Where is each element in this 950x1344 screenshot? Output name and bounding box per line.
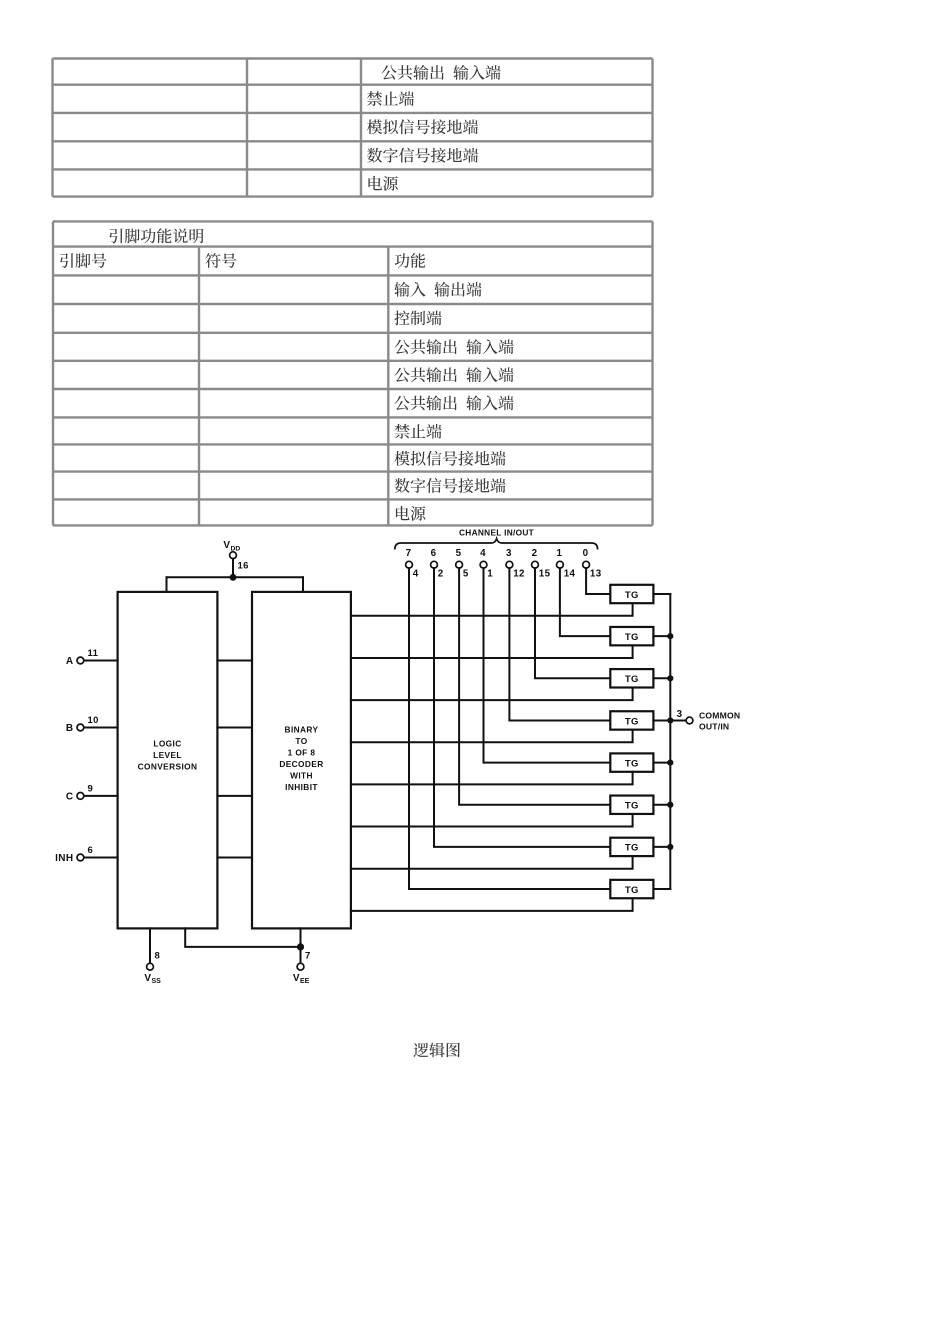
svg-text:1: 1 (556, 548, 562, 559)
svg-text:13: 13 (590, 569, 602, 580)
wire VDD stub (232, 559, 234, 578)
junction VEE (297, 943, 304, 950)
junction bus TG4 (667, 717, 673, 723)
svg-text:DECODER: DECODER (279, 759, 323, 769)
terminal INH (77, 854, 84, 861)
svg-text:TG: TG (625, 632, 639, 643)
svg-text:TG: TG (625, 590, 639, 601)
op block U1 LOGIC LEVEL CONVERSION (118, 592, 218, 929)
wire decoder output 2 (351, 645, 633, 658)
wire channel 6 to TG7 (434, 568, 610, 847)
table 1 grid (53, 57, 653, 59)
wire U1 to U2 level A (217, 660, 252, 662)
svg-text:1 OF 8: 1 OF 8 (288, 747, 316, 757)
wire VDD rail (167, 576, 304, 578)
svg-text:7: 7 (305, 951, 311, 962)
svg-text:DD: DD (231, 546, 241, 553)
wire input C (84, 795, 118, 797)
wire VDD drop left (166, 577, 168, 592)
junction bus TG6 (667, 802, 673, 808)
transmission gate TG1 (610, 585, 653, 603)
terminal C (77, 793, 84, 800)
svg-text:B: B (66, 723, 74, 734)
wire channel 3 to TG4 (509, 568, 610, 720)
svg-text:1: 1 (487, 569, 493, 580)
svg-text:TG: TG (625, 801, 639, 812)
transmission gate TG6 (610, 796, 653, 814)
wire U1 to U2 level B (217, 727, 252, 729)
terminal B (77, 724, 84, 731)
svg-text:WITH: WITH (290, 770, 313, 780)
svg-text:C: C (66, 791, 74, 802)
svg-text:3: 3 (677, 709, 683, 720)
svg-text:6: 6 (88, 845, 94, 856)
wire decoder output 7 (351, 856, 633, 869)
wire TG1 output (653, 593, 670, 595)
svg-text:INHIBIT: INHIBIT (285, 782, 318, 792)
svg-text:5: 5 (463, 569, 469, 580)
svg-text:EE: EE (300, 978, 310, 985)
svg-text:TG: TG (625, 843, 639, 854)
wire TG8 output (653, 888, 670, 890)
table 2 text (109, 228, 203, 243)
wire input A (84, 660, 118, 662)
terminal channel 4 (480, 561, 487, 568)
terminal channel 3 (506, 561, 513, 568)
svg-text:CHANNEL IN/OUT: CHANNEL IN/OUT (459, 528, 534, 538)
svg-text:7: 7 (406, 548, 412, 559)
terminal VEE pin 7 (297, 963, 304, 970)
svg-text:12: 12 (513, 569, 525, 580)
wire common tap (670, 719, 686, 721)
terminal COMMON OUT/IN pin 3 (686, 717, 693, 724)
svg-text:16: 16 (238, 561, 249, 572)
transmission gate TG5 (610, 753, 653, 771)
terminal channel 6 (431, 561, 438, 568)
junction VDD (230, 574, 237, 581)
table 2 grid (53, 220, 653, 222)
wire channel 0 to TG1 (586, 568, 610, 594)
svg-text:2: 2 (438, 569, 444, 580)
wire TG7 output (653, 846, 670, 848)
wire decoder output 8 (351, 898, 633, 911)
svg-text:10: 10 (88, 715, 99, 726)
svg-text:TG: TG (625, 674, 639, 685)
svg-text:2: 2 (532, 548, 538, 559)
wire U1 to U2 level C (217, 795, 252, 797)
svg-text:LEVEL: LEVEL (153, 750, 182, 760)
wire channel 5 to TG6 (459, 568, 610, 805)
svg-text:TG: TG (625, 758, 639, 769)
svg-text:A: A (66, 656, 74, 667)
wire common bus (669, 594, 671, 889)
wire decoder output 4 (351, 730, 633, 743)
svg-text:TO: TO (295, 736, 307, 746)
wire decoder output 6 (351, 814, 633, 827)
svg-text:4: 4 (480, 548, 486, 559)
terminal channel 2 (532, 561, 539, 568)
transmission gate TG2 (610, 627, 653, 645)
svg-text:LOGIC: LOGIC (153, 739, 181, 749)
svg-text:15: 15 (539, 569, 551, 580)
svg-text:V: V (144, 973, 151, 984)
wire VDD drop right (302, 577, 304, 592)
svg-text:3: 3 (506, 548, 512, 559)
svg-text:V: V (223, 540, 230, 551)
svg-text:COMMON: COMMON (699, 711, 740, 721)
brace channel group (395, 539, 598, 550)
svg-text:TG: TG (625, 885, 639, 896)
transmission gate TG4 (610, 711, 653, 729)
wire decoder output 1 (351, 603, 633, 616)
wire TG3 output (653, 677, 670, 679)
junction bus TG7 (667, 844, 673, 850)
svg-text:4: 4 (413, 569, 419, 580)
terminal channel 5 (456, 561, 463, 568)
svg-text:0: 0 (583, 548, 589, 559)
transmission gate TG3 (610, 669, 653, 687)
terminal channel 1 (557, 561, 564, 568)
terminal VSS pin 8 (147, 963, 154, 970)
junction bus TG2 (667, 633, 673, 639)
svg-text:5: 5 (456, 548, 462, 559)
terminal channel 7 (406, 561, 413, 568)
caption 逻辑图 (413, 1043, 460, 1058)
wire input INH (84, 857, 118, 859)
svg-text:9: 9 (88, 783, 94, 794)
wire U1 to U2 level INH (217, 857, 252, 859)
terminal channel 0 (583, 561, 590, 568)
wire TG5 output (653, 762, 670, 764)
wire U1 bottom to VEE jog (185, 928, 300, 947)
svg-text:SS: SS (152, 978, 162, 985)
op block U2 BINARY TO 1 OF 8 DECODER WITH INHIBIT (252, 592, 351, 929)
table 1 text (381, 65, 500, 80)
wire decoder output 3 (351, 688, 633, 701)
svg-text:8: 8 (155, 951, 161, 962)
svg-text:V: V (293, 973, 300, 984)
wire TG6 output (653, 804, 670, 806)
svg-text:BINARY: BINARY (285, 725, 319, 735)
svg-text:INH: INH (55, 853, 73, 864)
svg-text:11: 11 (88, 648, 99, 659)
transmission gate TG7 (610, 838, 653, 856)
svg-text:OUT/IN: OUT/IN (699, 722, 729, 732)
svg-text:14: 14 (564, 569, 576, 580)
svg-text:6: 6 (431, 548, 437, 559)
svg-text:CONVERSION: CONVERSION (138, 762, 198, 772)
terminal VDD pin 16 (230, 552, 237, 559)
svg-text:TG: TG (625, 716, 639, 727)
wire channel 7 to TG8 (409, 568, 610, 889)
junction bus TG3 (667, 675, 673, 681)
wire VSS stub (149, 928, 151, 963)
wire input B (84, 727, 118, 729)
wire TG4 output (653, 719, 670, 721)
wire channel 2 to TG3 (535, 568, 610, 678)
transmission gate TG8 (610, 880, 653, 898)
wire decoder output 5 (351, 772, 633, 785)
wire channel 1 to TG2 (560, 568, 610, 636)
terminal A (77, 657, 84, 664)
wire TG2 output (653, 635, 670, 637)
wire channel 4 to TG5 (484, 568, 611, 763)
wire VEE stub (300, 928, 302, 963)
junction bus TG5 (667, 760, 673, 766)
